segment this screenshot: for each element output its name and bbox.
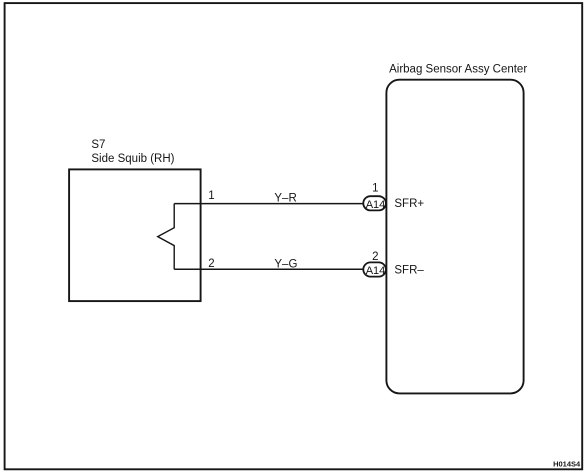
svg-text:2: 2: [208, 258, 214, 270]
svg-text:A14: A14: [366, 199, 386, 211]
svg-text:1: 1: [208, 190, 214, 202]
svg-text:Y–R: Y–R: [274, 193, 296, 205]
svg-text:Airbag Sensor Assy Center: Airbag Sensor Assy Center: [389, 64, 527, 76]
svg-text:Y–G: Y–G: [274, 258, 297, 270]
svg-text:1: 1: [372, 183, 378, 195]
svg-text:SFR–: SFR–: [394, 264, 424, 276]
svg-text:A14: A14: [366, 265, 386, 277]
svg-text:2: 2: [372, 251, 378, 263]
svg-text:Side Squib (RH): Side Squib (RH): [91, 153, 174, 165]
svg-text:SFR+: SFR+: [394, 198, 424, 210]
svg-text:H014S4: H014S4: [553, 459, 581, 468]
svg-text:S7: S7: [91, 139, 105, 151]
